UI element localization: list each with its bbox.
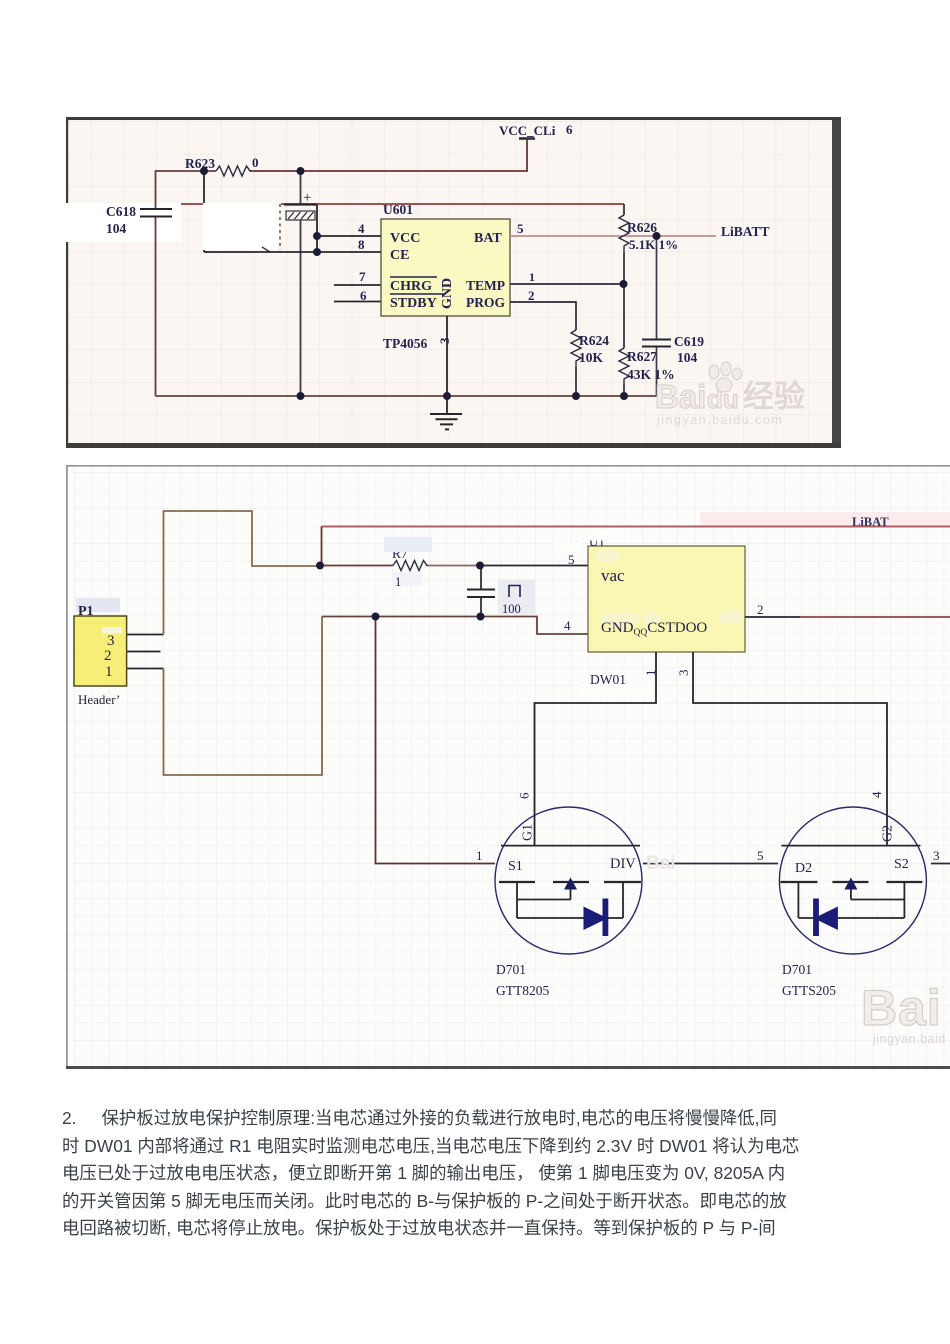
wire: brown loop from pin 3 to B+ node <box>164 511 321 635</box>
junction at LiBATT node <box>653 232 661 240</box>
svg-text:104: 104 <box>677 350 698 365</box>
svg-text:3: 3 <box>676 670 691 677</box>
junction at electrolytic cap top <box>297 167 305 175</box>
svg-text:R626: R626 <box>627 220 657 235</box>
junction ground rail at R627 <box>620 392 628 400</box>
wire: P1 pin stubs <box>127 635 164 669</box>
svg-text:TEMP: TEMP <box>466 278 505 293</box>
svg-text:S1: S1 <box>508 859 523 874</box>
svg-text:Header’: Header’ <box>78 692 120 707</box>
svg-text:BAT: BAT <box>474 231 502 246</box>
svg-text:5: 5 <box>568 552 575 567</box>
wire: C619 column <box>656 236 658 396</box>
svg-text:2: 2 <box>528 288 535 303</box>
wire: VCC_CLi to R623 <box>250 139 527 171</box>
svg-text:Bai: Bai <box>646 853 676 874</box>
svg-text:Bai: Bai <box>861 980 942 1036</box>
wire: bottom ground rail <box>156 395 657 397</box>
svg-text:C619: C619 <box>674 334 704 349</box>
resistor R624 <box>571 330 609 367</box>
svg-text:8: 8 <box>358 237 365 252</box>
svg-text:jingyan.baid: jingyan.baid <box>872 1032 946 1046</box>
wire: B+ node to R7 <box>320 565 393 567</box>
svg-text:1: 1 <box>476 848 483 863</box>
svg-text:1: 1 <box>529 270 535 284</box>
header P1 <box>74 598 127 707</box>
dashed selection line <box>262 204 280 252</box>
svg-text:C618: C618 <box>106 204 136 219</box>
resistor R623 <box>185 155 259 176</box>
resistor R7 <box>384 537 432 589</box>
svg-text:3: 3 <box>933 848 940 863</box>
svg-text:0: 0 <box>252 155 259 170</box>
svg-text:D2: D2 <box>795 861 812 876</box>
junction ground rail at pin 3 <box>443 392 451 400</box>
junction at C7 bottom <box>477 613 485 621</box>
wire: TEMP pin 1 <box>510 270 624 284</box>
svg-text:PROG: PROG <box>466 295 505 310</box>
svg-text:R623: R623 <box>185 156 215 171</box>
net label LiBATT <box>721 224 770 239</box>
svg-text:100: 100 <box>502 602 521 616</box>
svg-text:VCC_CLi: VCC_CLi <box>499 123 556 138</box>
svg-text:U601: U601 <box>383 202 413 217</box>
wire: pin 3 GND <box>446 316 448 396</box>
IC DW01 <box>578 529 745 699</box>
junction at B+ node <box>316 562 324 570</box>
svg-text:S2: S2 <box>894 857 909 872</box>
svg-text:GNDQQCSTDOO: GNDQQCSTDOO <box>601 620 707 638</box>
svg-text:4: 4 <box>358 221 365 236</box>
ground symbol <box>430 396 462 429</box>
wire: left rail below C618 <box>155 217 157 396</box>
svg-text:7: 7 <box>359 269 366 284</box>
WATERMARKS <box>646 362 946 1046</box>
svg-text:4: 4 <box>869 791 884 798</box>
capacitor C618 <box>106 204 172 236</box>
electrolytic capacitor (polarized) <box>284 190 317 220</box>
svg-text:5: 5 <box>757 848 764 863</box>
wire: PROG pin 2 to R624 <box>510 288 576 396</box>
wire: vertical x=300 through electrolytic cap down to rail <box>300 171 302 396</box>
wire: R7 to DW01 pin 5 <box>428 543 588 567</box>
junction at B- node <box>372 613 380 621</box>
svg-text:6: 6 <box>360 288 367 303</box>
wire: vertical x=624 R626/R627 chain <box>623 204 625 396</box>
svg-text:STDBY: STDBY <box>390 296 437 311</box>
svg-text:1: 1 <box>643 670 658 677</box>
svg-text:6: 6 <box>566 122 573 137</box>
svg-text:vac: vac <box>601 566 625 585</box>
wire: B- long vertical to S1 of mosfet <box>376 617 496 864</box>
junction at VCC pin 4 <box>313 232 321 240</box>
svg-text:G2: G2 <box>881 825 896 842</box>
resistor R626 <box>619 215 678 253</box>
SCHEMATIC1 <box>66 117 841 448</box>
svg-text:Bai: Bai <box>655 378 706 415</box>
net LiBAT rail <box>322 512 950 566</box>
svg-text:jingyan.baidu.com: jingyan.baidu.com <box>656 413 783 427</box>
wire: top rail from left rail to R626 column <box>156 203 625 205</box>
svg-text:VCC: VCC <box>390 231 420 246</box>
power port VCC_CLi <box>499 122 573 139</box>
svg-text:CE: CE <box>390 248 409 263</box>
wire: D1-D2 link <box>643 848 778 864</box>
svg-text:5: 5 <box>517 221 524 236</box>
svg-text:TP4056: TP4056 <box>383 336 428 351</box>
svg-text:2: 2 <box>757 602 764 617</box>
svg-text:LiBAT: LiBAT <box>852 515 889 529</box>
svg-text:LiBATT: LiBATT <box>721 224 770 239</box>
IC U601 TP4056 <box>381 202 510 351</box>
svg-text:CHRG: CHRG <box>390 279 432 294</box>
svg-text:P1: P1 <box>78 604 94 619</box>
svg-text:DIV: DIV <box>610 856 636 872</box>
capacitor C7 branch <box>467 566 535 617</box>
SCHEMATIC2 <box>66 465 950 1069</box>
svg-text:3: 3 <box>437 337 452 344</box>
wire: pin 7 stub <box>334 269 381 285</box>
mosfet Q2 (8205 half) G2 <box>779 807 926 954</box>
wire: brown loop from pin 1 to B- node <box>164 617 323 776</box>
wire: vertical at x=204 (R623 node down to CE wire, partly hidden by white patch) <box>203 171 205 252</box>
svg-text:1: 1 <box>105 664 113 680</box>
svg-text:104: 104 <box>106 221 127 236</box>
svg-text:1: 1 <box>395 575 401 589</box>
wire: lower rail to DW01 pin 4 <box>322 617 588 635</box>
junction at R623 output node <box>200 167 208 175</box>
svg-text:3: 3 <box>107 633 115 649</box>
label D701 GTTS205 <box>774 962 856 1002</box>
svg-text:R624: R624 <box>579 333 609 348</box>
wire: R623 left to left rail, down to C618 <box>156 171 217 209</box>
svg-text:5.1K 1%: 5.1K 1% <box>629 237 678 252</box>
junction ground rail at cap branch <box>297 392 305 400</box>
mosfet Q1 (8205 half) G1 <box>495 807 642 954</box>
wire: DW01 pin 3 to G2 gate <box>676 652 887 846</box>
junction at C7 top <box>476 562 484 570</box>
label D701 GTT8205 <box>488 962 568 1002</box>
white patch left (over C618 area) <box>66 203 181 242</box>
svg-text:4: 4 <box>564 618 571 633</box>
svg-text:R627: R627 <box>627 349 657 364</box>
wire: DW01 pin 1 to G1 gate <box>517 652 659 846</box>
svg-text:经验: 经验 <box>743 379 805 414</box>
wire: pin 4 VCC <box>317 221 381 236</box>
wire: cap plus to pins 4/8 vertical <box>316 205 318 253</box>
svg-text:G1: G1 <box>521 824 536 841</box>
white patch right (over electrolytic cap area) <box>203 203 281 250</box>
junction ground rail at R624 <box>572 392 580 400</box>
wire: pin 8 CE <box>204 237 381 252</box>
wire: DW01 pin 2 output <box>745 602 950 617</box>
svg-text:6: 6 <box>517 792 532 799</box>
wire: BAT pin 5 to LiBATT <box>510 221 716 236</box>
svg-text:GND: GND <box>440 278 455 309</box>
wire: pin 6 stub <box>334 288 381 303</box>
resistor R627 <box>619 348 675 385</box>
capacitor C619 <box>642 334 704 365</box>
svg-text:2: 2 <box>104 648 112 664</box>
wire: S2 to P- right edge <box>931 848 950 864</box>
junction at CE pin 8 <box>313 248 321 256</box>
junction at TEMP/R626/R627 node <box>620 280 628 288</box>
svg-text:10K: 10K <box>579 350 604 365</box>
